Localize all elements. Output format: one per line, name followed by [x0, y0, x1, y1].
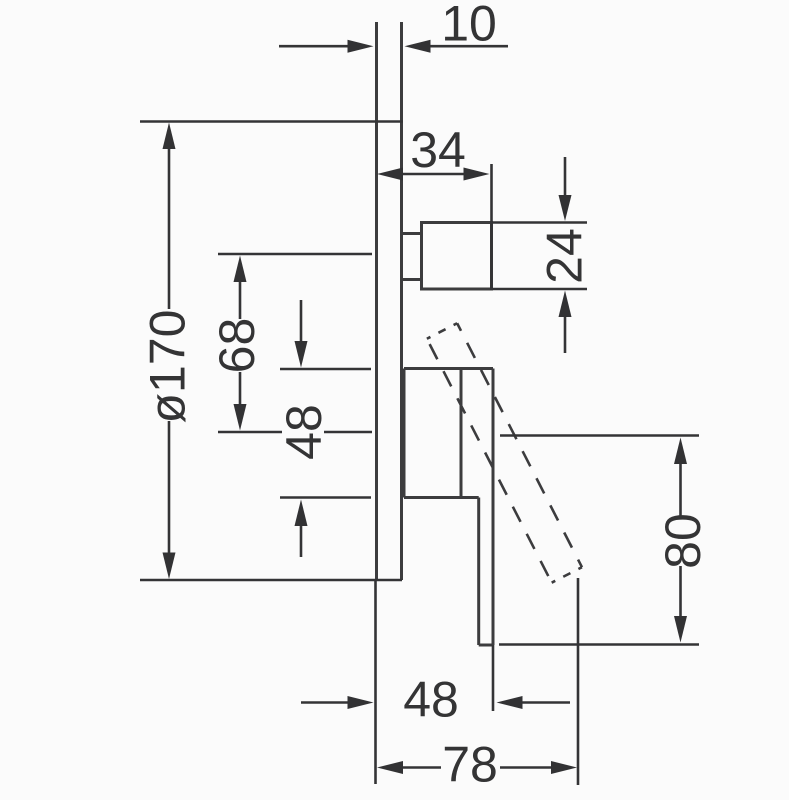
- dim 10 right stem: [427, 45, 508, 48]
- svg-text:80: 80: [655, 513, 711, 569]
- dim 24 lower stem: [564, 313, 567, 353]
- arrowhead 10 right pointing left: [405, 40, 431, 53]
- handle stem top edge: [403, 232, 422, 235]
- wall plate back line: [400, 22, 403, 580]
- arrowhead 48 up-to-bottom-line: [295, 500, 308, 527]
- svg-text:48: 48: [403, 672, 459, 728]
- extension line 48 top: [280, 368, 371, 371]
- arrowhead 78 pointing right: [551, 761, 577, 774]
- dim 24 upper stem: [564, 157, 567, 199]
- arrowhead 78 pointing left: [377, 761, 403, 774]
- arrowhead 24 up: [559, 291, 572, 318]
- dim 48 bottom left stem: [301, 701, 350, 704]
- lever handle dashed outline: [427, 323, 582, 582]
- extension line dia170 top (through plate): [140, 120, 403, 123]
- dim 34 line: [401, 173, 466, 176]
- svg-text:24: 24: [537, 228, 593, 284]
- handle knob rectangle: [422, 223, 492, 290]
- handle right extension line: [490, 164, 493, 289]
- arrowhead dia170 down: [163, 553, 176, 580]
- svg-text:ø170: ø170: [140, 310, 196, 424]
- arrowhead 68 down: [234, 404, 247, 431]
- arrowhead 48 down-to-top-line: [295, 341, 308, 368]
- handle stem bottom edge: [403, 278, 422, 281]
- extension line 68 bottom: [218, 431, 372, 434]
- extension line dia170 bottom / plate bottom edge: [140, 579, 402, 582]
- label 48 left background: [282, 401, 324, 463]
- extension line 48 bottom: [280, 496, 371, 499]
- arrowhead 10 left pointing right: [348, 40, 374, 53]
- plate left extension line down: [374, 580, 377, 784]
- arrowhead 34 pointing right: [464, 168, 490, 181]
- lever bottom end cap: [552, 567, 582, 582]
- dim 78 right segment: [500, 766, 553, 769]
- dim dia170 line upper segment: [168, 140, 171, 309]
- valve body top edge: [404, 367, 493, 370]
- arrowhead 34 pointing left: [377, 168, 403, 181]
- valve body inner vertical line: [460, 369, 463, 498]
- wall plate front line: [375, 22, 378, 580]
- arrowhead 48 bottom pointing right: [348, 696, 374, 709]
- dim 68 upper stem: [239, 275, 242, 319]
- arrowhead 80 up: [674, 438, 687, 465]
- lever top end cap: [427, 323, 457, 338]
- arrowhead 48 bottom pointing left: [497, 696, 523, 709]
- body right extension line down: [492, 645, 495, 711]
- valve body left edge: [403, 369, 406, 498]
- dim 10 left stem: [279, 45, 350, 48]
- dim 48 bottom right stem: [520, 701, 570, 704]
- svg-text:68: 68: [209, 318, 265, 374]
- valve body bottom cap: [479, 644, 493, 647]
- arrowhead 24 down: [559, 195, 572, 221]
- dim 68 lower stem: [239, 372, 242, 412]
- valve body step edge: [404, 496, 479, 499]
- dim 48 lower outside stem: [300, 522, 303, 557]
- extension line 80 top: [500, 434, 699, 437]
- svg-text:34: 34: [410, 122, 466, 178]
- arrowhead 80 down: [674, 616, 687, 643]
- valve body narrow left edge: [477, 498, 480, 646]
- svg-text:78: 78: [442, 737, 498, 793]
- extension line 68 top: [218, 253, 372, 256]
- dim 80 upper stem: [679, 460, 682, 516]
- extension line 24 top: [490, 221, 587, 224]
- valve body right edge: [492, 369, 495, 646]
- lever left side: [427, 339, 552, 583]
- dim 80 lower stem: [679, 566, 682, 620]
- lever right side: [457, 323, 582, 567]
- arrowhead 68 up: [234, 256, 247, 283]
- svg-text:10: 10: [441, 0, 497, 52]
- svg-text:48: 48: [276, 404, 332, 460]
- dim 78 left segment: [401, 766, 441, 769]
- lever tip extension line: [577, 578, 580, 785]
- dim 48 upper outside stem: [300, 300, 303, 345]
- extension line 80 bottom: [499, 643, 699, 646]
- dim dia170 line lower segment: [168, 421, 171, 562]
- arrowhead dia170 up: [163, 123, 176, 150]
- extension line 24 bottom: [490, 288, 587, 291]
